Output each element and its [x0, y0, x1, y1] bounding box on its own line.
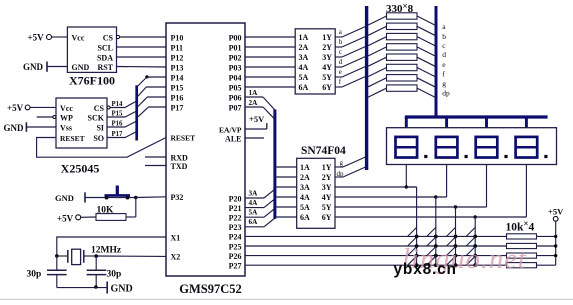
svg-text:ybx8.cn: ybx8.cn [394, 261, 457, 278]
decimal point 2 [465, 155, 468, 158]
svg-text:EA/VP: EA/VP [219, 125, 242, 134]
wire 4Y digit select 2 [335, 196, 447, 198]
key switch S1 [408, 227, 419, 238]
svg-text:P13: P13 [171, 63, 184, 72]
+5V supply to X76F100 Vcc [28, 33, 68, 43]
wire P06 to bus net 1A [245, 97, 275, 110]
resistor R4 330 segment d [368, 44, 435, 56]
ground GND to X76F100 GND pin [23, 62, 67, 73]
svg-text:CS: CS [103, 33, 114, 42]
svg-text:30p: 30p [27, 270, 42, 280]
wire SI to net P16 [107, 121, 137, 127]
svg-text:GND: GND [4, 123, 25, 133]
seven-segment digit 3 [476, 137, 498, 158]
key switch S14 [427, 256, 438, 267]
display digit 1 anode tick [405, 117, 408, 128]
wire row P25 [245, 245, 507, 247]
svg-text:g: g [340, 159, 344, 167]
EEPROM U3 X25045 [56, 98, 110, 176]
svg-text:+5V: +5V [7, 103, 24, 113]
svg-text:5A: 5A [249, 209, 259, 217]
svg-text:P21: P21 [229, 204, 242, 213]
resistor R2 330 segment b [368, 23, 435, 35]
svg-text:P20: P20 [229, 194, 242, 203]
svg-text:Vcc: Vcc [60, 104, 73, 113]
+5V to EA/VP [245, 114, 267, 129]
input bus to SN74F04 B [273, 110, 276, 219]
svg-text:P16: P16 [112, 121, 124, 128]
decimal point 3 [504, 155, 507, 158]
wire P00 to 1A [245, 36, 295, 38]
crystal Y1 12MHz [55, 249, 98, 264]
decimal point 4 [544, 155, 547, 158]
display digit 2 anode tick [445, 117, 448, 128]
svg-text:RESET: RESET [171, 134, 196, 143]
segment bus right [435, 6, 438, 117]
wire bus to input 6A [276, 216, 296, 218]
wire P05 to 6A [245, 86, 295, 88]
svg-text:5Y: 5Y [322, 203, 332, 212]
wire bus to input 2A [276, 176, 296, 178]
svg-text:4Y: 4Y [322, 63, 332, 72]
svg-text:P14: P14 [171, 73, 184, 82]
wire bus to P17 [138, 107, 166, 117]
svg-text:4A: 4A [249, 199, 259, 207]
key switch S15 [447, 256, 458, 267]
wire digit 1 common [405, 165, 417, 189]
svg-text:g: g [442, 79, 446, 88]
key switch S7 [447, 237, 458, 248]
svg-text:TXD: TXD [171, 162, 188, 171]
svg-text:RESET: RESET [60, 134, 85, 143]
wire P22 to bus net 5A [245, 208, 275, 217]
svg-text:P01: P01 [229, 43, 242, 52]
svg-text:3A: 3A [249, 189, 259, 197]
svg-text:6A: 6A [300, 213, 310, 222]
keypad column 3 [455, 207, 457, 265]
wire 2Y to bus, segment b [335, 36, 366, 47]
wire digit 2 common [434, 165, 447, 199]
seven-segment digit 4 [516, 137, 538, 158]
wire bus to input 1A [276, 166, 296, 168]
resistor R8 330 segment dp [368, 85, 435, 97]
svg-text:1A: 1A [299, 33, 309, 42]
key switch S5 [408, 237, 419, 248]
svg-text:5Y: 5Y [322, 73, 332, 82]
ground GND at crystal [107, 282, 133, 295]
wire bus to input 4A [276, 196, 296, 198]
wire P03 to 4A [245, 66, 295, 68]
svg-text:P16: P16 [171, 93, 184, 102]
svg-text:P10: P10 [171, 33, 184, 42]
wire P23 to bus net 6A [245, 218, 275, 227]
wire 6Y to bus, segment f [335, 76, 366, 87]
svg-text:5A: 5A [299, 73, 309, 82]
decimal point 1 [424, 155, 427, 158]
wire SCK to net P15 [107, 111, 137, 117]
wire ALE stub [245, 137, 264, 139]
wire 5Y digit select 3 [335, 206, 487, 208]
wire 4Y to bus, segment d [335, 56, 366, 67]
EEPROM U2 X76F100 [67, 27, 119, 88]
keypad column 4 [474, 217, 476, 265]
svg-text:e: e [339, 68, 342, 76]
svg-text:SO: SO [93, 134, 104, 143]
resistor R1 330 segment a [368, 13, 435, 25]
resistor RP2 10k [507, 243, 556, 248]
wire P20 to bus net 3A [245, 189, 275, 198]
+5V supply to X25045 Vcc [7, 103, 56, 113]
+5V to 10K [57, 214, 96, 224]
resistor R3 330 segment c [368, 33, 435, 45]
svg-text:2Y: 2Y [322, 43, 332, 52]
svg-text:1A: 1A [300, 163, 310, 172]
svg-text:+5V: +5V [249, 114, 265, 124]
wire row P26 [245, 255, 507, 257]
svg-text:GND: GND [72, 63, 90, 72]
MCU U1 GMS97C52 [166, 23, 245, 296]
svg-text:10k×4: 10k×4 [506, 219, 535, 234]
wire bus to P16 [138, 97, 166, 107]
svg-text:GND: GND [55, 193, 74, 203]
wire key to P32 [134, 196, 166, 217]
svg-text:P15: P15 [171, 83, 184, 92]
wire P02 to 3A [245, 56, 295, 58]
svg-text:X76F100: X76F100 [69, 74, 115, 88]
svg-text:ALE: ALE [225, 134, 241, 143]
wire TXD stub [145, 165, 166, 167]
svg-text:P27: P27 [229, 262, 242, 271]
resistor RP3 10k [507, 253, 556, 258]
wire P07 to bus net 2A [245, 107, 275, 119]
svg-text:4Y: 4Y [322, 193, 332, 202]
wire X1 to crystal [57, 237, 166, 256]
svg-text:SCK: SCK [88, 114, 105, 123]
svg-text:6Y: 6Y [322, 213, 332, 222]
bus X25045 to MCU [135, 85, 138, 140]
wire bus to P15 [138, 87, 166, 96]
wire CS to net P14 [110, 101, 137, 108]
key switch S3 [447, 227, 458, 238]
svg-text:CS: CS [94, 104, 105, 113]
svg-text:P05: P05 [229, 83, 242, 92]
svg-text:P17: P17 [112, 131, 124, 138]
wire digit 3 common [454, 165, 487, 209]
wire row P27 [245, 264, 507, 266]
wire SDA to P12 [117, 56, 167, 58]
svg-text:GND: GND [111, 284, 133, 295]
wire 1Y segment g to bus [335, 157, 367, 168]
svg-text:P24: P24 [229, 233, 242, 242]
svg-text:+5V: +5V [28, 33, 45, 43]
svg-text:P04: P04 [229, 73, 242, 82]
wire CS to P10 [120, 36, 167, 38]
svg-text:Vss: Vss [60, 124, 72, 133]
svg-text:2A: 2A [299, 43, 309, 52]
svg-text:3Y: 3Y [322, 183, 332, 192]
wire P01 to 2A [245, 46, 295, 48]
wire bus to input 5A [276, 206, 296, 208]
wire digit 4 common [474, 165, 527, 219]
wire SO to net P17 [107, 132, 137, 138]
capacitor C2 30p [87, 256, 122, 288]
wire SCL to P11 [117, 46, 167, 48]
svg-text:P07: P07 [229, 103, 242, 112]
svg-text:3A: 3A [300, 183, 310, 192]
resistor R9 10K pullup [96, 206, 136, 221]
svg-text:P03: P03 [229, 63, 242, 72]
svg-text:c: c [339, 48, 342, 56]
push button key S17 [105, 186, 131, 200]
key switch S13 [408, 256, 419, 267]
wire X2 to crystal [96, 255, 166, 257]
wire 6Y digit select 4 [335, 216, 526, 218]
keypad column 1 [416, 187, 418, 265]
svg-text:P32: P32 [171, 193, 184, 202]
svg-text:1Y: 1Y [322, 163, 332, 172]
key switch S10 [427, 247, 438, 258]
svg-text:X2: X2 [171, 253, 181, 262]
4-digit 7-segment display module [387, 128, 557, 165]
svg-text:P25: P25 [229, 242, 242, 251]
wire 5Y to bus, segment e [335, 66, 366, 77]
svg-text:P14: P14 [112, 101, 124, 108]
svg-text:1Y: 1Y [322, 33, 332, 42]
svg-text:2Y: 2Y [322, 173, 332, 182]
svg-text:d: d [339, 58, 343, 66]
key switch S9 [408, 247, 419, 258]
svg-text:P17: P17 [171, 103, 184, 112]
key switch S16 [466, 256, 477, 267]
svg-text:3Y: 3Y [322, 53, 332, 62]
wire WP stub with bubble [37, 116, 56, 119]
svg-text:P15: P15 [112, 111, 124, 118]
wire P21 to bus net 4A [245, 199, 275, 208]
svg-text:b: b [339, 38, 343, 46]
key switch S6 [427, 237, 438, 248]
svg-text:X1: X1 [171, 233, 181, 242]
wire 3Y to bus, segment c [335, 46, 366, 57]
capacitor C1 30p [27, 256, 67, 288]
wire 3Y digit select 1 [335, 186, 417, 188]
key switch S11 [447, 247, 458, 258]
wire P04 to 5A [245, 76, 295, 78]
svg-text:5A: 5A [300, 203, 310, 212]
wire bus to input 3A [276, 186, 296, 188]
svg-text:SCL: SCL [97, 43, 113, 52]
wire X25045 RESET to MCU RESET [37, 138, 166, 158]
seven-segment digit 1 [396, 137, 418, 158]
key switch S12 [466, 247, 477, 258]
svg-text:6Y: 6Y [322, 83, 332, 92]
key switch S2 [427, 227, 438, 238]
wire bus to P14 [138, 75, 166, 86]
svg-text:GMS97C52: GMS97C52 [179, 282, 242, 296]
display anode bar [405, 115, 548, 118]
ground GND at key [55, 192, 136, 203]
wire caps to ground [57, 285, 107, 289]
svg-text:12MHz: 12MHz [91, 246, 122, 256]
svg-text:P02: P02 [229, 53, 242, 62]
svg-text:1A: 1A [249, 89, 259, 97]
resistor R6 330 segment f [368, 64, 435, 76]
segment bus left [365, 6, 368, 170]
svg-text:dp: dp [337, 170, 345, 178]
svg-text:SDA: SDA [97, 53, 113, 62]
hex inverter U4 SN74F04 section A [295, 29, 335, 94]
svg-text:+5V: +5V [548, 207, 564, 217]
wire row P24 [245, 235, 507, 237]
hex inverter U5 SN74F04 section B [297, 145, 346, 229]
svg-text:P26: P26 [229, 252, 242, 261]
scan edge artifact [0, 298, 573, 300]
resistor RP1 10k [507, 234, 556, 239]
wire RST to P13 [117, 66, 167, 69]
svg-text:Vcc: Vcc [72, 33, 85, 42]
ground GND to X25045 Vss [4, 122, 57, 133]
svg-text:P06: P06 [229, 93, 242, 102]
svg-text:X25045: X25045 [61, 162, 100, 176]
svg-text:GND: GND [23, 62, 44, 72]
svg-text:P00: P00 [229, 33, 242, 42]
seven-segment digit 2 [436, 137, 458, 158]
resistor R5 330 segment e [368, 54, 435, 66]
svg-text:P23: P23 [229, 223, 242, 232]
svg-text:b: b [442, 32, 446, 41]
svg-text:WP: WP [60, 114, 73, 123]
svg-text:SI: SI [96, 124, 104, 133]
svg-text:d: d [442, 50, 446, 59]
display digit 4 anode tick [525, 117, 528, 128]
svg-text:P12: P12 [171, 53, 184, 62]
key switch S8 [466, 237, 477, 248]
+5V pullup supply [548, 207, 564, 266]
svg-text:6A: 6A [249, 218, 259, 226]
svg-text:4A: 4A [300, 193, 310, 202]
svg-text:6A: 6A [299, 83, 309, 92]
svg-text:P22: P22 [229, 214, 242, 223]
svg-text:SN74F04: SN74F04 [301, 145, 346, 157]
resistor RP4 10k [507, 263, 556, 268]
resistor R7 330 segment g [368, 75, 435, 87]
wire RXD stub [145, 156, 166, 158]
key switch S4 [466, 227, 477, 238]
svg-text:RST: RST [97, 63, 113, 72]
keypad column 2 [435, 197, 437, 265]
svg-text:dp: dp [442, 89, 450, 98]
wire 1Y to bus, segment a [335, 26, 366, 37]
svg-text:+5V: +5V [57, 214, 74, 224]
display digit 3 anode tick [485, 117, 488, 128]
wire 2Y segment dp to bus [335, 167, 367, 178]
svg-text:3A: 3A [299, 53, 309, 62]
svg-text:4A: 4A [299, 63, 309, 72]
svg-text:2A: 2A [249, 99, 259, 107]
svg-text:P11: P11 [171, 43, 183, 52]
svg-text:30p: 30p [107, 270, 122, 280]
svg-text:2A: 2A [300, 173, 310, 182]
